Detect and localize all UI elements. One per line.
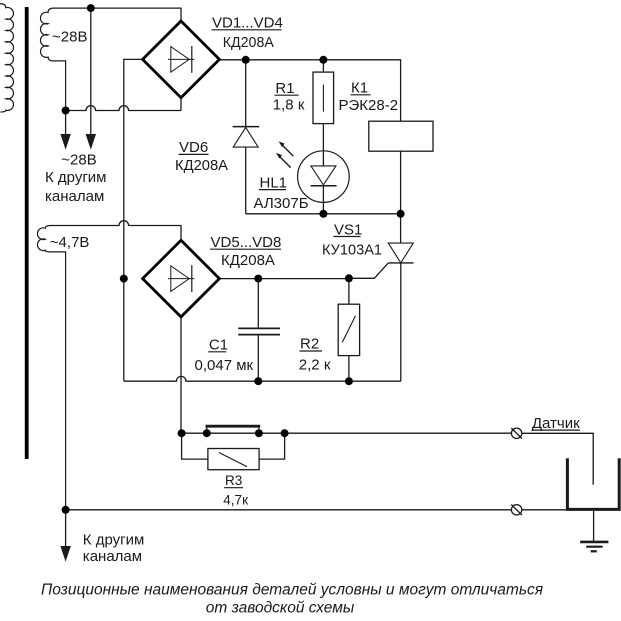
svg-text:1,8 к: 1,8 к (273, 97, 305, 114)
svg-text:~4,7В: ~4,7В (50, 234, 90, 251)
svg-text:4,7к: 4,7к (223, 492, 248, 507)
svg-text:К другим: К другим (83, 531, 145, 548)
svg-text:К1: К1 (351, 80, 368, 97)
svg-text:КД208А: КД208А (221, 252, 275, 269)
svg-text:~28В: ~28В (52, 28, 87, 45)
svg-text:VD5...VD8: VD5...VD8 (211, 234, 282, 251)
svg-text:R3: R3 (225, 473, 242, 488)
svg-text:VD6: VD6 (179, 139, 208, 156)
svg-text:VS1: VS1 (334, 221, 362, 238)
svg-text:КУ103А1: КУ103А1 (322, 242, 382, 259)
svg-text:С1: С1 (209, 336, 228, 353)
svg-text:АЛ307Б: АЛ307Б (254, 195, 309, 212)
svg-text:HL1: HL1 (260, 174, 288, 191)
svg-text:К другим: К другим (45, 169, 107, 186)
svg-text:~28В: ~28В (61, 151, 96, 168)
svg-text:VD1...VD4: VD1...VD4 (212, 15, 283, 32)
svg-text:Позиционные наименования детал: Позиционные наименования деталей условны… (41, 582, 543, 599)
svg-text:R1: R1 (275, 80, 294, 97)
svg-text:РЭК28-2: РЭК28-2 (339, 97, 399, 114)
svg-text:от заводской схемы: от заводской схемы (206, 599, 355, 616)
svg-text:КД208А: КД208А (223, 34, 274, 51)
svg-text:2,2 к: 2,2 к (299, 356, 331, 373)
svg-text:КД208А: КД208А (175, 157, 228, 174)
svg-text:каналам: каналам (45, 188, 104, 205)
svg-text:каналам: каналам (83, 548, 142, 565)
svg-text:R2: R2 (300, 336, 319, 353)
svg-text:Датчик: Датчик (532, 415, 580, 432)
svg-text:0,047 мк: 0,047 мк (195, 357, 254, 374)
